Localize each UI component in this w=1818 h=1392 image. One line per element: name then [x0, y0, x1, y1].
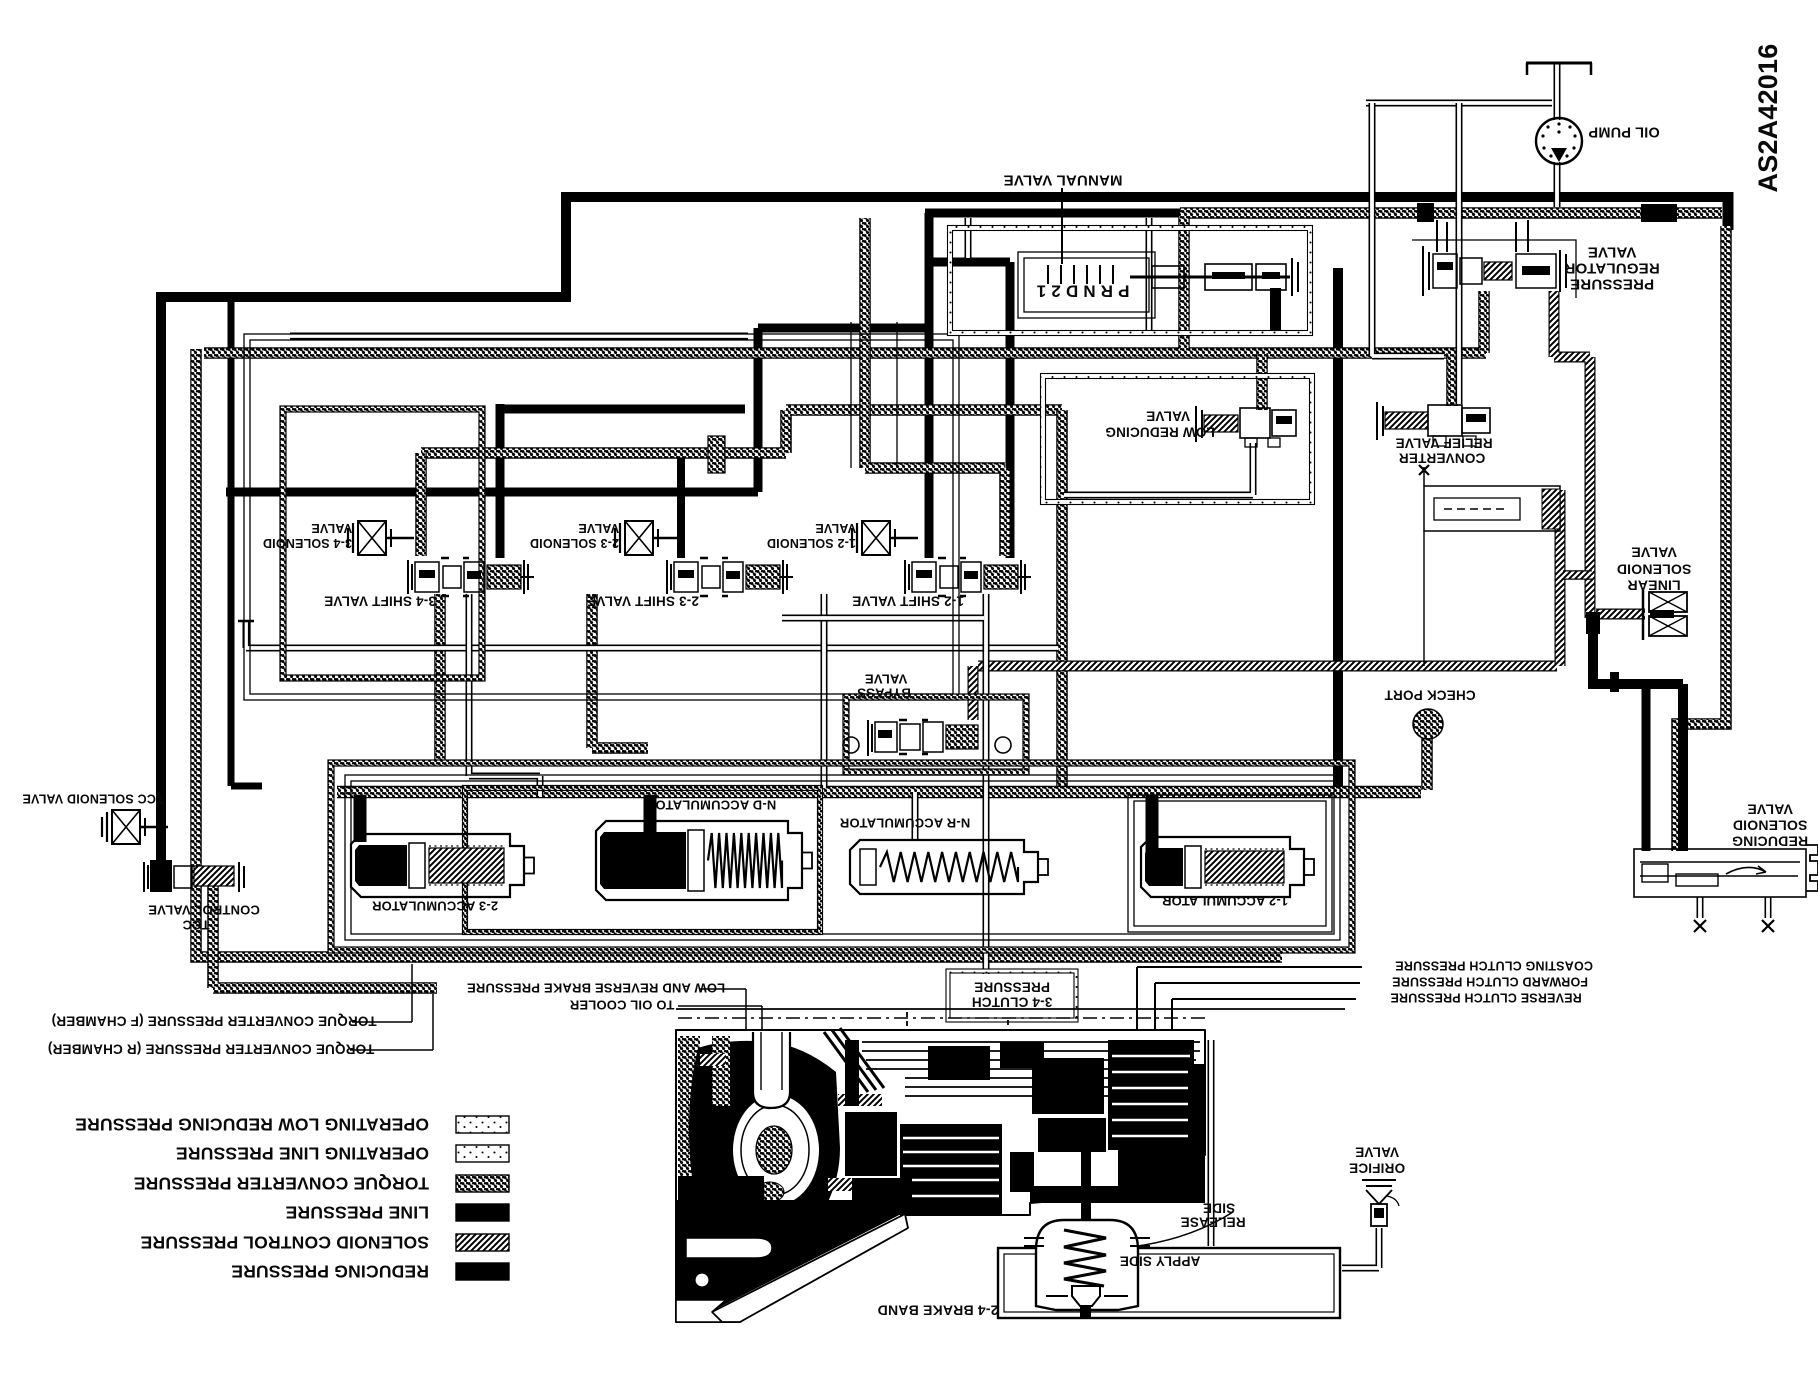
wire leader release side: [1138, 1212, 1233, 1246]
wire stipple drop to 2-3 accumulator: [434, 594, 446, 764]
wire hatched connector: [1563, 570, 1592, 579]
wire line-pressure left arm: [161, 292, 571, 302]
wire pipe orifice to apply side: [1342, 1228, 1379, 1268]
svg-text:VALVE: VALVE: [311, 521, 352, 535]
wire left thin-black vertical: [228, 297, 235, 786]
wire pump stem up: [1554, 63, 1561, 120]
wire pipe pump top: [1366, 100, 1552, 107]
wire hatched drop from pressure regulator: [1554, 291, 1590, 618]
wire hatched long line from bypass valve: [978, 661, 1557, 672]
3-4 clutch pressure box: [948, 971, 1076, 1020]
wire black drop right: [1678, 684, 1688, 851]
manual valve label line: [1061, 188, 1063, 264]
box 1-2 feed channel: [851, 322, 897, 468]
svg-text:2-3 SHIFT VALVE: 2-3 SHIFT VALVE: [587, 594, 699, 609]
svg-text:SIDE: SIDE: [1203, 1201, 1235, 1216]
wire leader low-reverse: [700, 989, 746, 1035]
svg-text:REVERSE CLUTCH PRESSURE: REVERSE CLUTCH PRESSURE: [1390, 991, 1581, 1005]
servo spring: [1064, 1230, 1106, 1286]
svg-text:SOLENOID: SOLENOID: [1617, 562, 1692, 578]
wire branch: [929, 258, 1010, 267]
valve 3-4 shift: [408, 558, 534, 596]
wire pipe to converter relief: [1372, 103, 1444, 356]
x mark drain 1: [1694, 920, 1706, 932]
wire pipe y336: [290, 333, 748, 340]
accumulator N-D: [596, 821, 802, 900]
svg-text:SOLENOID: SOLENOID: [1733, 818, 1808, 834]
wire black feed 2-3 accumulator: [354, 795, 367, 842]
svg-text:VALVE: VALVE: [1747, 802, 1793, 818]
svg-text:1-2 SHIFT VALVE: 1-2 SHIFT VALVE: [852, 594, 964, 609]
svg-text:RELIEF VALVE: RELIEF VALVE: [1395, 436, 1492, 451]
wire pipe N-R accumulator feed: [912, 792, 919, 840]
wire line-pressure left vertical to TCC: [156, 292, 166, 876]
wire check port stem: [1421, 738, 1433, 790]
2-4 brake band rect: [998, 1248, 1340, 1318]
oil pump: [1536, 118, 1582, 164]
svg-text:LOW AND REVERSE BRAKE PRESSURE: LOW AND REVERSE BRAKE PRESSURE: [467, 981, 725, 996]
solenoid 3-4: [348, 521, 414, 555]
box manual valve region: [950, 228, 1310, 333]
wire hatched box right border: [1555, 490, 1566, 666]
wire black feed 1-2 accumulator: [1146, 795, 1159, 855]
wire leader oil cooler: [678, 1006, 762, 1035]
wire left stipple vertical + TCC line to blob: [196, 349, 1282, 957]
wire pipe to servo region: [1208, 1040, 1215, 1246]
legend swatch OPERATING LINE PRESSURE: [456, 1145, 509, 1162]
svg-text:CONVERTER: CONVERTER: [1399, 451, 1486, 466]
svg-text:1-2 SOLENOID: 1-2 SOLENOID: [767, 536, 856, 550]
check port: [1413, 709, 1443, 739]
solenoid 1-2: [852, 521, 918, 555]
accumulator N-R: [850, 840, 1038, 894]
box 1-2 accumulator enclosure: [1128, 795, 1332, 932]
svg-text:1-2 ACCUMULATOR: 1-2 ACCUMULATOR: [1161, 894, 1288, 909]
oil pump filter T-bar: [1526, 62, 1592, 65]
wire pipe drop 1-2b: [983, 594, 990, 974]
wire drop to 3-4 shift valve: [496, 404, 505, 558]
svg-text:MANUAL VALVE: MANUAL VALVE: [1003, 172, 1122, 189]
legend swatch REDUCING PRESSURE: [456, 1263, 509, 1280]
svg-text:APPLY SIDE: APPLY SIDE: [1120, 1254, 1201, 1269]
svg-text:RELEASE: RELEASE: [1180, 1215, 1245, 1230]
svg-text:BYPASS: BYPASS: [857, 686, 911, 701]
svg-text:VALVE: VALVE: [1631, 545, 1677, 561]
wire stipple drop 3-4: [415, 453, 427, 556]
svg-text:N-R ACCUMULATOR: N-R ACCUMULATOR: [839, 816, 970, 831]
svg-text:P R N D 2 1: P R N D 2 1: [1037, 282, 1130, 301]
wire reducing solenoid leg 1: [1697, 897, 1704, 918]
valve 2-3 shift: [667, 558, 793, 596]
wire pipe manual box left: [1146, 218, 1153, 333]
wire leader F chamber: [352, 964, 412, 1022]
x mark converter relief: [1419, 465, 1429, 475]
svg-text:CHECK PORT: CHECK PORT: [1384, 688, 1476, 703]
accumulator 2-3: [351, 834, 524, 897]
svg-text:VALVE: VALVE: [1355, 1145, 1399, 1160]
TCC control valve: [144, 862, 244, 892]
svg-text:VALVE: VALVE: [815, 521, 856, 535]
wire pump stem down: [1554, 162, 1561, 207]
low reducing valve: [1196, 406, 1202, 442]
wire mid vertical: [754, 328, 763, 492]
accumulator 1-2: [1141, 837, 1304, 897]
svg-text:TORQUE CONVERTER PRESSURE: TORQUE CONVERTER PRESSURE: [134, 1174, 429, 1194]
wire stipple path to 1-2 shift valve: [865, 218, 1005, 556]
svg-text:OPERATING LOW REDUCING PRESSUR: OPERATING LOW REDUCING PRESSURE: [75, 1115, 429, 1135]
linear solenoid valve: [1649, 592, 1687, 612]
svg-text:TCC: TCC: [182, 918, 210, 933]
legend swatch TORQUE CONVERTER PRESSURE: [456, 1175, 509, 1192]
wire stipple to low reducing valve: [1256, 353, 1268, 410]
wire long stippled line y792: [337, 786, 1421, 799]
svg-text:COASTING CLUTCH PRESSURE: COASTING CLUTCH PRESSURE: [1395, 959, 1593, 973]
wire pipe manual box far left: [965, 218, 972, 258]
wire blob top line: [676, 1008, 1345, 1010]
solenoid 2-3: [615, 521, 681, 555]
reducing solenoid valve: [1634, 849, 1806, 897]
box shift-valve region outer: [244, 334, 959, 700]
wire leader reverse: [1172, 999, 1356, 1040]
wire drop to 1-2 shift valve: [925, 213, 934, 558]
orifice valve: [1362, 1180, 1396, 1186]
svg-text:FORWARD CLUTCH PRESSURE: FORWARD CLUTCH PRESSURE: [1392, 975, 1588, 989]
svg-text:TCC SOLENOID VALVE: TCC SOLENOID VALVE: [22, 792, 163, 806]
wire pipe N-D feed: [469, 594, 540, 796]
wire black drop left: [1642, 689, 1651, 851]
svg-text:PRESSURE: PRESSURE: [974, 980, 1050, 995]
svg-text:VALVE: VALVE: [578, 521, 619, 535]
wire stipple elbow to pressure regulator: [1478, 291, 1490, 353]
manual valve detent tick: [1047, 265, 1049, 284]
wire TCC second stipple line: [213, 880, 437, 988]
wire right corner down: [1723, 192, 1734, 230]
svg-text:TORQUE CONVERTER PRESSURE (R C: TORQUE CONVERTER PRESSURE (R CHAMBER): [48, 1042, 375, 1057]
converter feed chamber: [1424, 486, 1560, 531]
svg-text:TORQUE CONVERTER PRESSURE (F C: TORQUE CONVERTER PRESSURE (F CHAMBER): [51, 1014, 376, 1029]
svg-text:REGULATOR: REGULATOR: [1564, 260, 1659, 277]
svg-text:3-4 CLUTCH: 3-4 CLUTCH: [972, 995, 1053, 1010]
box accumulator inner: [345, 775, 1340, 940]
wire stippled top line: [1180, 207, 1722, 219]
wire pipe low reducing out: [1064, 443, 1253, 495]
wire black horizontal to reducing solenoid: [1588, 679, 1683, 689]
wire mid horizontal: [226, 488, 758, 497]
wire long vertical from manual valve: [1333, 268, 1343, 792]
svg-text:2-3 SOLENOID: 2-3 SOLENOID: [530, 536, 619, 550]
wire stipple long vertical x1062: [1056, 410, 1068, 790]
wire manual valve stipple drop: [1178, 216, 1190, 349]
wire drop to 2-3 shift valve: [677, 458, 685, 558]
box bypass valve enclosure: [846, 697, 1026, 772]
svg-text:LINE PRESSURE: LINE PRESSURE: [285, 1203, 429, 1223]
svg-text:PRESSURE: PRESSURE: [1570, 276, 1654, 293]
wire upper horizontal: [496, 405, 745, 414]
svg-text:REDUCING: REDUCING: [1732, 834, 1808, 850]
wire black below hatch: [1588, 614, 1598, 684]
wire black feed N-D accumulator: [644, 795, 657, 850]
svg-text:SOLENOID CONTROL PRESSURE: SOLENOID CONTROL PRESSURE: [140, 1233, 429, 1253]
wire long stippled line y353: [204, 347, 1486, 359]
wire hatched to linear solenoid valve: [1596, 609, 1645, 620]
svg-text:TO OIL COOLER: TO OIL COOLER: [569, 998, 674, 1013]
wire line-pressure left drop: [561, 192, 571, 297]
valve 1-2 shift: [905, 558, 1031, 596]
transmission cross-section: [676, 1028, 1205, 1322]
x mark drain 2: [1762, 920, 1774, 932]
svg-text:AS2A42016: AS2A42016: [1753, 44, 1783, 193]
svg-text:VALVE: VALVE: [1588, 244, 1637, 261]
wire hatched elbow into bypass valve: [968, 666, 979, 720]
servo stem: [1081, 1130, 1091, 1224]
wire line-pressure top trunk: [566, 192, 1728, 202]
manual valve: [1018, 252, 1155, 318]
box 3-4 shift enclosure: [283, 409, 482, 678]
wire centerline dash-dot: [678, 1017, 1210, 1019]
legend swatch LINE PRESSURE: [456, 1204, 509, 1221]
svg-text:2-4 BRAKE BAND: 2-4 BRAKE BAND: [877, 1303, 998, 1319]
svg-text:2-3 ACCUMULATOR: 2-3 ACCUMULATOR: [371, 899, 498, 914]
svg-text:LINEAR: LINEAR: [1627, 578, 1680, 594]
servo dome: [1036, 1220, 1138, 1310]
svg-text:N-D ACCUMULATOR: N-D ACCUMULATOR: [645, 798, 776, 813]
legend swatch OPERATING LOW REDUCING PRESSURE: [456, 1116, 509, 1133]
svg-text:ORIFICE: ORIFICE: [1349, 1161, 1405, 1176]
wire pipe drop 1-2a: [821, 594, 828, 788]
bypass valve: [868, 720, 978, 756]
pressure regulator valve: [1423, 246, 1429, 296]
wire leader forward: [1155, 983, 1360, 1040]
svg-text:CONTROL VALVE: CONTROL VALVE: [148, 903, 260, 918]
wire mid horizontal upper: [758, 324, 929, 333]
converter relief valve: [1377, 402, 1383, 440]
box accumulator region: [331, 763, 1352, 950]
svg-text:OIL PUMP: OIL PUMP: [1588, 124, 1660, 140]
svg-text:REDUCING PRESSURE: REDUCING PRESSURE: [231, 1262, 429, 1282]
wire stipple drop 2-3 to N-D accumulator: [592, 594, 648, 748]
wire right-edge stippled drop to reducing solenoid valve: [1677, 226, 1726, 851]
wire reducing solenoid leg 2: [1765, 897, 1772, 918]
wire leader R chamber: [350, 994, 433, 1050]
svg-text:VALVE: VALVE: [865, 672, 908, 687]
box low reducing region: [1043, 376, 1312, 502]
svg-text:VALVE: VALVE: [1146, 409, 1190, 424]
wire leader coasting: [1137, 967, 1362, 1040]
manual valve spool: [1130, 276, 1290, 279]
wire dotted clutch feed box: [907, 1012, 1008, 1139]
wire pipe to converter relief 2: [1456, 103, 1463, 404]
wire stipple to converter relief valve: [1446, 353, 1458, 406]
wire drop to 1-2 shift valve right: [1006, 262, 1015, 558]
wire elbow into accumulator box: [231, 783, 262, 790]
solenoid TCC: [102, 810, 168, 844]
svg-text:OPERATING LINE PRESSURE: OPERATING LINE PRESSURE: [176, 1144, 429, 1164]
wire pipe 1-2 shift bottom: [782, 615, 984, 622]
svg-text:LOW REDUCING: LOW REDUCING: [1105, 425, 1215, 440]
svg-text:3-4 SHIFT VALVE: 3-4 SHIFT VALVE: [324, 594, 436, 609]
legend swatch SOLENOID CONTROL PRESSURE: [456, 1234, 509, 1251]
svg-text:3-4 SOLENOID: 3-4 SOLENOID: [263, 536, 352, 550]
wire long pipe y648: [246, 622, 1058, 648]
wire stipple shift-valve row: [421, 410, 1062, 453]
box N-D accumulator enclosure: [465, 788, 820, 932]
box pressure regulator partial: [1412, 240, 1576, 298]
wire line-pressure second trunk: [925, 209, 1185, 218]
